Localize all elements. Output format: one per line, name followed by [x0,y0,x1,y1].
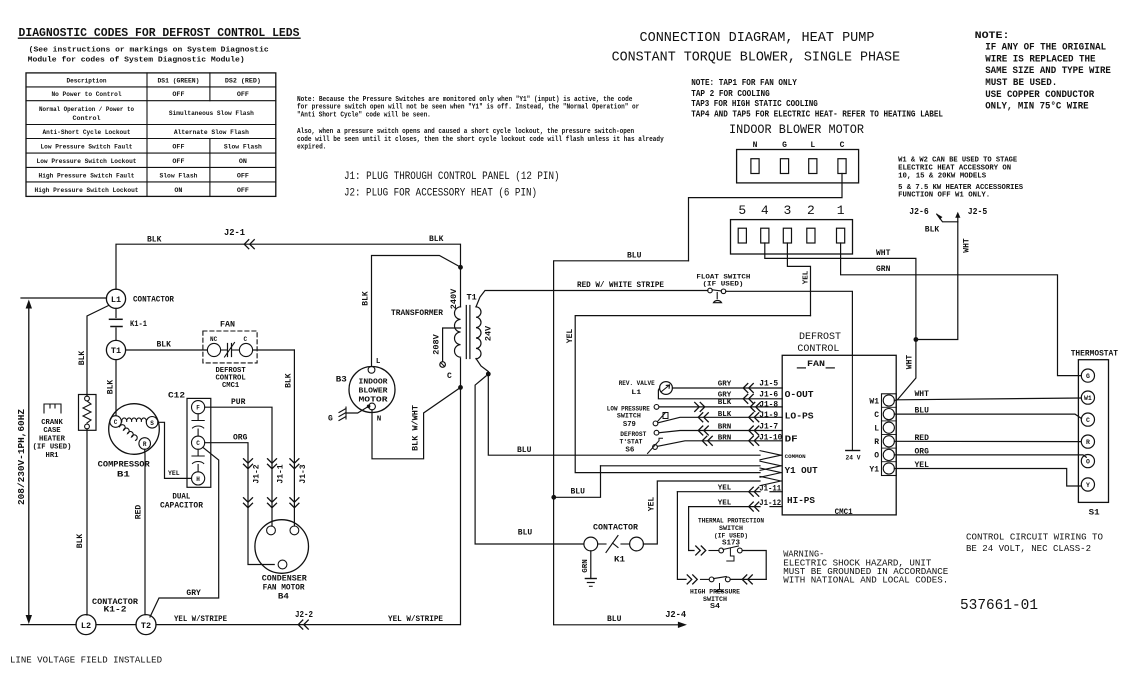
svg-text:Low Pressure Switch Lockout: Low Pressure Switch Lockout [37,158,137,166]
svg-text:Module for codes of System Dia: Module for codes of System Diagnostic Mo… [28,56,245,64]
svg-text:DEFROST: DEFROST [799,331,841,343]
svg-text:YEL W/STRIPE: YEL W/STRIPE [388,615,443,624]
svg-text:T1: T1 [111,346,121,356]
svg-text:COMMON: COMMON [785,453,806,460]
svg-text:YEL: YEL [718,484,732,492]
svg-text:BE 24 VOLT, NEC CLASS-2: BE 24 VOLT, NEC CLASS-2 [966,543,1091,554]
svg-text:OFF: OFF [237,91,249,99]
svg-text:WITH NATIONAL AND LOCAL CODES.: WITH NATIONAL AND LOCAL CODES. [783,575,948,586]
svg-text:O-OUT: O-OUT [785,389,814,400]
svg-text:F: F [196,405,200,412]
svg-text:SWITCH: SWITCH [703,596,727,603]
svg-text:B1: B1 [117,471,130,480]
svg-text:BLK: BLK [718,411,732,419]
svg-text:J2-4: J2-4 [665,610,687,620]
svg-text:CONTACTOR: CONTACTOR [593,523,639,533]
svg-text:"Anti Short Cycle" code will b: "Anti Short Cycle" code will be seen. [297,112,431,120]
svg-text:RED W/ WHITE STRIPE: RED W/ WHITE STRIPE [577,281,664,290]
svg-text:OFF: OFF [237,187,249,195]
svg-text:HI-PS: HI-PS [787,495,815,506]
svg-text:No Power to Control: No Power to Control [52,91,122,99]
svg-text:BLU: BLU [517,446,532,455]
svg-text:TAP4 AND TAP5 FOR ELECTRIC HEA: TAP4 AND TAP5 FOR ELECTRIC HEAT- REFER T… [691,108,943,119]
svg-text:TRANSFORMER: TRANSFORMER [391,308,444,318]
svg-text:THERMOSTAT: THERMOSTAT [1071,349,1118,358]
svg-text:BLU: BLU [571,488,586,497]
svg-text:J1-1: J1-1 [277,464,286,483]
svg-text:C: C [1086,417,1090,424]
svg-text:J1-12: J1-12 [759,498,781,508]
svg-text:BRN: BRN [718,423,732,431]
svg-text:ELECTRIC HEAT ACCESSORY ON: ELECTRIC HEAT ACCESSORY ON [898,165,1011,173]
svg-text:REV. VALVE: REV. VALVE [619,380,655,388]
svg-text:5: 5 [738,203,746,218]
svg-text:YEL: YEL [647,497,656,512]
svg-text:Description: Description [67,77,107,85]
svg-text:Slow Flash: Slow Flash [224,144,262,152]
svg-text:L1: L1 [111,295,121,305]
svg-text:C12: C12 [168,391,185,401]
svg-text:FAN MOTOR: FAN MOTOR [263,584,305,593]
svg-text:2: 2 [807,203,815,218]
svg-text:Alternate Slow Flash: Alternate Slow Flash [174,129,249,137]
svg-text:ORG: ORG [233,433,248,442]
svg-text:B3: B3 [336,375,347,385]
svg-text:K1-1: K1-1 [130,320,147,329]
svg-text:C: C [874,411,879,420]
svg-text:J2: PLUG FOR ACCESSORY HEAT (6: J2: PLUG FOR ACCESSORY HEAT (6 PIN) [344,187,537,199]
svg-text:R: R [874,438,879,447]
svg-text:N: N [753,141,758,150]
svg-text:FUNCTION OFF W1 ONLY.: FUNCTION OFF W1 ONLY. [898,191,990,199]
svg-text:FAN: FAN [807,359,825,369]
svg-text:WHT: WHT [915,390,930,399]
svg-text:10, 15 & 20KW MODELS: 10, 15 & 20KW MODELS [898,172,987,180]
svg-text:YEL: YEL [915,461,930,470]
svg-text:J1-7: J1-7 [759,421,778,431]
svg-text:C: C [114,419,118,426]
svg-text:DEFROST: DEFROST [620,431,646,438]
svg-text:OFF: OFF [172,158,184,166]
svg-text:S1: S1 [1089,508,1100,518]
svg-text:N: N [377,416,382,424]
svg-text:ON: ON [174,187,182,195]
svg-text:S79: S79 [623,421,636,429]
svg-text:BLK: BLK [147,236,162,245]
svg-text:for pressure switch open will: for pressure switch open will not be see… [297,104,639,112]
svg-text:CASE: CASE [43,427,61,435]
svg-text:CONNECTION DIAGRAM, HEAT PUMP: CONNECTION DIAGRAM, HEAT PUMP [640,31,875,46]
svg-text:L: L [376,358,381,366]
svg-text:HIGH PRESSURE: HIGH PRESSURE [690,589,740,596]
svg-text:L: L [874,425,879,434]
svg-text:FAN: FAN [220,321,235,330]
svg-text:DS1 (GREEN): DS1 (GREEN) [157,77,199,85]
svg-text:K1: K1 [614,556,625,565]
svg-text:WHT: WHT [963,238,972,253]
svg-text:Anti-Short Cycle Lockout: Anti-Short Cycle Lockout [43,129,131,137]
svg-text:BLK: BLK [157,341,172,350]
svg-text:J1-5: J1-5 [759,379,778,389]
svg-text:(IF USED): (IF USED) [703,281,744,288]
svg-text:Also, when a pressure switch o: Also, when a pressure switch opens and c… [297,128,634,136]
svg-text:SWITCH: SWITCH [617,413,641,420]
svg-text:R: R [1086,439,1090,446]
svg-text:INDOOR: INDOOR [359,379,389,387]
svg-text:BRN: BRN [718,434,732,442]
svg-text:S6: S6 [625,447,634,455]
svg-text:BLK: BLK [284,373,293,388]
svg-text:BLU: BLU [627,252,642,261]
svg-text:L2: L2 [81,621,91,631]
svg-text:DUAL: DUAL [172,492,190,501]
svg-text:537661-01: 537661-01 [960,598,1038,614]
svg-text:CONTROL CIRCUIT WIRING TO: CONTROL CIRCUIT WIRING TO [966,531,1103,542]
svg-text:DS2 (RED): DS2 (RED) [225,77,261,85]
svg-text:J1-10: J1-10 [759,433,782,443]
svg-text:J2-6: J2-6 [909,207,929,217]
svg-text:CONSTANT TORQUE BLOWER, SINGLE: CONSTANT TORQUE BLOWER, SINGLE PHASE [612,51,901,66]
svg-text:code will be seen until it clo: code will be seen until it closes, then … [297,136,664,144]
svg-text:O: O [874,452,879,461]
svg-text:NC: NC [210,336,218,343]
svg-text:L: L [810,141,815,150]
svg-text:Simultaneous Slow Flash: Simultaneous Slow Flash [169,110,254,118]
svg-text:THERMAL PROTECTION: THERMAL PROTECTION [698,518,764,525]
svg-text:B4: B4 [278,593,289,602]
svg-text:O: O [1086,459,1090,466]
svg-text:(IF USED): (IF USED) [714,532,748,539]
svg-text:T1: T1 [467,293,477,303]
svg-text:WIRE IS REPLACED THE: WIRE IS REPLACED THE [985,54,1095,65]
svg-text:BLK: BLK [429,235,444,244]
svg-text:NOTE:: NOTE: [975,31,1010,42]
svg-text:COMPRESSOR: COMPRESSOR [98,461,150,470]
svg-text:J2-2: J2-2 [295,610,313,620]
svg-text:GRY: GRY [186,589,201,598]
svg-text:4: 4 [761,203,769,218]
svg-text:J2-1: J2-1 [224,228,246,238]
svg-text:ONLY, MIN 75°C WIRE: ONLY, MIN 75°C WIRE [985,101,1088,113]
svg-text:J1-6: J1-6 [759,389,778,399]
svg-text:OFF: OFF [172,91,184,99]
svg-text:Low Pressure Switch Fault: Low Pressure Switch Fault [41,144,133,152]
svg-text:ON: ON [239,158,247,166]
svg-text:CRANK: CRANK [41,419,63,427]
svg-text:DF: DF [785,433,798,444]
svg-text:G: G [328,415,333,424]
svg-text:C: C [840,141,845,150]
svg-text:W1 & W2 CAN BE USED TO STAGE: W1 & W2 CAN BE USED TO STAGE [898,156,1018,164]
svg-text:W1: W1 [869,397,879,406]
svg-text:C: C [244,336,248,343]
svg-text:H: H [196,476,200,483]
svg-text:SWITCH: SWITCH [719,525,743,532]
svg-text:RED: RED [135,505,144,520]
svg-text:CONTACTOR: CONTACTOR [133,296,174,305]
svg-text:USE COPPER CONDUCTOR: USE COPPER CONDUCTOR [985,90,1094,101]
svg-text:BLK: BLK [107,380,116,395]
svg-text:CAPACITOR: CAPACITOR [160,502,203,511]
svg-text:BLOWER: BLOWER [359,388,389,396]
svg-text:W1: W1 [1084,395,1092,402]
svg-text:240V: 240V [449,288,459,309]
svg-text:LINE VOLTAGE FIELD INSTALLED: LINE VOLTAGE FIELD INSTALLED [10,656,162,666]
svg-text:HEATER: HEATER [39,435,66,443]
svg-text:CONDENSER: CONDENSER [262,575,307,584]
svg-text:S4: S4 [710,603,721,611]
svg-text:Control: Control [72,115,100,123]
svg-text:G: G [1086,373,1090,380]
svg-text:K1-2: K1-2 [104,606,127,615]
svg-text:CONTROL: CONTROL [797,343,839,355]
svg-text:LOW PRESSURE: LOW PRESSURE [607,405,650,412]
svg-text:Y: Y [1086,482,1090,489]
svg-text:BLK: BLK [362,291,371,306]
svg-text:MUST BE USED.: MUST BE USED. [985,78,1057,89]
svg-text:Y1: Y1 [869,465,879,474]
svg-text:MOTOR: MOTOR [359,397,389,405]
svg-text:expired.: expired. [297,144,327,152]
svg-text:SAME SIZE AND TYPE WIRE: SAME SIZE AND TYPE WIRE [985,66,1111,77]
svg-text:S: S [150,420,154,427]
svg-text:GRN: GRN [876,265,891,274]
svg-text:YEL: YEL [718,499,732,507]
svg-text:FLOAT SWITCH: FLOAT SWITCH [696,274,750,281]
svg-text:J2-5: J2-5 [968,207,988,217]
svg-text:WHT: WHT [906,355,915,370]
svg-text:YEL W/STRIPE: YEL W/STRIPE [174,615,227,624]
svg-text:(See instructions or markings: (See instructions or markings on System … [29,46,269,54]
svg-text:High Pressure Switch Fault: High Pressure Switch Fault [39,172,135,180]
svg-text:OFF: OFF [237,172,249,180]
svg-text:High Pressure Switch Lockout: High Pressure Switch Lockout [35,187,139,195]
svg-text:G: G [782,141,787,150]
svg-text:J1: PLUG THROUGH CONTROL PANEL: J1: PLUG THROUGH CONTROL PANEL (12 PIN) [344,171,560,183]
svg-text:BLK W/WHT: BLK W/WHT [412,405,421,451]
svg-text:WHT: WHT [876,249,891,258]
svg-text:INDOOR BLOWER MOTOR: INDOOR BLOWER MOTOR [729,122,864,137]
svg-text:YEL: YEL [802,270,810,284]
svg-text:J1-9: J1-9 [759,410,778,420]
svg-text:(IF USED): (IF USED) [33,444,72,452]
svg-text:PUR: PUR [231,398,246,407]
svg-text:HR1: HR1 [46,452,60,460]
svg-text:CMC1: CMC1 [222,382,240,390]
svg-text:BLU: BLU [518,529,533,538]
svg-text:Y1 OUT: Y1 OUT [785,465,818,476]
svg-text:BLK: BLK [718,399,732,407]
svg-text:T'STAT: T'STAT [620,439,643,446]
svg-text:IF ANY OF THE ORIGINAL: IF ANY OF THE ORIGINAL [985,43,1106,54]
svg-text:24V: 24V [484,325,494,341]
svg-text:BLK: BLK [925,225,940,234]
svg-text:R: R [143,441,147,448]
svg-text:NOTE: TAP1 FOR FAN ONLY: NOTE: TAP1 FOR FAN ONLY [691,77,797,88]
svg-text:C: C [196,440,200,447]
svg-text:208/230V-1PH,60HZ: 208/230V-1PH,60HZ [16,409,27,505]
svg-text:T2: T2 [141,621,151,631]
svg-text:J1-8: J1-8 [759,400,778,410]
svg-text:YEL: YEL [168,470,180,477]
svg-text:BLU: BLU [607,615,622,624]
svg-text:CMC1: CMC1 [835,507,853,517]
svg-text:Normal Operation / Power to: Normal Operation / Power to [39,106,134,114]
svg-text:3: 3 [783,203,791,218]
svg-text:BLK: BLK [78,351,87,366]
svg-text:RED: RED [915,434,930,443]
svg-text:ORG: ORG [915,447,930,456]
svg-text:BLK: BLK [76,534,85,549]
svg-text:1: 1 [837,203,845,218]
svg-text:BLU: BLU [915,407,930,416]
svg-text:24 V: 24 V [846,455,861,462]
svg-text:LO-PS: LO-PS [785,411,814,422]
svg-text:GRN: GRN [582,559,590,573]
svg-text:J1-2: J1-2 [253,464,262,483]
svg-text:J1-3: J1-3 [299,464,308,483]
svg-text:208V: 208V [431,333,441,354]
svg-text:C: C [447,372,452,381]
svg-text:L1: L1 [631,389,641,397]
svg-text:YEL: YEL [566,329,575,344]
svg-text:OFF: OFF [172,144,184,152]
svg-text:Slow Flash: Slow Flash [159,172,197,180]
svg-text:GRY: GRY [718,381,732,389]
